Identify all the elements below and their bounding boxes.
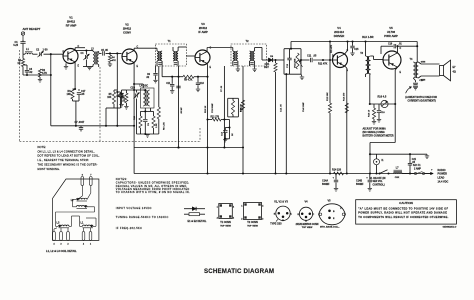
capacitor C15 [352, 42, 354, 46]
resistor R14 [334, 172, 344, 175]
wire T2 primary return [223, 66, 225, 148]
wire det return drop [242, 66, 244, 174]
svg-text:RF AMP: RF AMP [66, 24, 77, 28]
ground R4 [108, 63, 112, 65]
wire dial lamp feed [370, 153, 427, 155]
svg-text:R11 47K: R11 47K [318, 62, 328, 65]
transistor V1 [63, 49, 78, 64]
wire rail to T4 [416, 42, 418, 63]
svg-text:INPUT VOLTAGE 14VDC: INPUT VOLTAGE 14VDC [116, 206, 152, 210]
svg-text:RADIO: RADIO [438, 169, 446, 172]
diode CR1 [267, 59, 269, 61]
svg-text:MOST WINDING.: MOST WINDING. [38, 167, 61, 171]
wire base divider drop [116, 53, 118, 92]
svg-text:R18 10: R18 10 [369, 109, 371, 117]
wire V3 emitter drop [206, 64, 208, 66]
svg-text:R9 4.7K: R9 4.7K [184, 79, 193, 82]
svg-text:ANT RECEPT: ANT RECEPT [23, 27, 41, 31]
svg-text:63D892251-O: 63D892251-O [443, 226, 457, 228]
svg-text:10K: 10K [107, 97, 112, 99]
ground R18 [372, 121, 376, 123]
svg-text:C7 .0047: C7 .0047 [75, 121, 85, 124]
svg-text:1K: 1K [17, 62, 20, 65]
svg-text:C12 .05: C12 .05 [280, 104, 282, 112]
wire antenna to L1 [23, 53, 25, 55]
wire T4 secondary to speaker [418, 62, 421, 64]
svg-text:T2 CONN: T2 CONN [247, 221, 258, 224]
svg-text:TO COMPONENTS WILL RESULT IF C: TO COMPONENTS WILL RESULT IF CONNECTED O… [358, 215, 448, 219]
svg-text:L1, L2 & L3 COIL DETAIL: L1, L2 & L3 COIL DETAIL [46, 249, 77, 253]
wire bus link [133, 148, 135, 174]
capacitor C1 [22, 40, 24, 41]
wire T2 out [261, 48, 263, 61]
coil L3 primary [86, 50, 93, 52]
svg-text:C13 50MF: C13 50MF [212, 103, 214, 113]
wire L4 top [142, 84, 144, 88]
wire osc ground bar [137, 133, 159, 135]
wire R6 chain elbow [158, 131, 160, 134]
svg-text:GRN: GRN [421, 62, 426, 64]
transformer T2 secondary [250, 51, 251, 61]
potentiometer R10 volume [296, 53, 299, 69]
wire V1 emitter return [73, 100, 80, 102]
svg-text:C15: C15 [354, 49, 359, 51]
capacitor C13 [287, 57, 291, 59]
svg-text:GRN: GRN [421, 80, 426, 82]
resistor R12 drop [329, 42, 331, 104]
svg-text:.05 MF: .05 MF [181, 107, 183, 114]
ground oscillator [145, 134, 149, 136]
oscillator coil L4 box [141, 88, 155, 108]
resistor R8 [241, 100, 244, 110]
wire T1 return [161, 66, 163, 77]
svg-text:POWER: POWER [438, 173, 448, 176]
svg-text:CAUTION: CAUTION [399, 201, 413, 205]
ground C18 [377, 119, 381, 121]
resistor R9 det load [275, 60, 277, 63]
svg-text:TOP VIEW: TOP VIEW [220, 225, 232, 227]
svg-text:1.5K: 1.5K [156, 123, 158, 128]
resistor R15 osc [140, 111, 142, 116]
svg-text:R6 1.5K: R6 1.5K [164, 122, 166, 130]
ground R7 [124, 106, 128, 108]
wire C12 drop [285, 74, 287, 173]
capacitor T2 tuning [234, 62, 238, 64]
svg-text:POWER SUPPLY. RADIO WILL NOT: POWER SUPPLY. RADIO WILL NOT OPERATE AND… [358, 211, 447, 215]
coil L1 primary [25, 53, 33, 54]
transformer T2 can [231, 44, 267, 66]
ground C15 [350, 52, 354, 54]
wire V5 collector [397, 46, 399, 53]
resistor R6 chain [158, 66, 160, 107]
svg-text:CURRENT ADJUSTMENT): CURRENT ADJUSTMENT) [408, 100, 436, 103]
svg-text:IF AMP: IF AMP [198, 30, 208, 34]
caution box [356, 200, 457, 224]
svg-text:DRIVER: DRIVER [334, 34, 345, 38]
detail E1 E2 diode [184, 208, 192, 210]
svg-text:TOP VIEW: TOP VIEW [302, 227, 314, 229]
svg-text:TUNING RANGE-540KC TO 1610KC: TUNING RANGE-540KC TO 1610KC [116, 215, 169, 219]
capacitor C13 stub [197, 77, 199, 83]
ground lamp line [426, 154, 428, 155]
svg-text:DET: DET [264, 66, 269, 69]
antenna receptacle J1 [21, 32, 24, 35]
ground C12 [223, 138, 227, 140]
svg-text:NOTE:: NOTE: [38, 145, 47, 149]
ground volume [301, 74, 302, 76]
svg-text:IF FREQ-262.5KC: IF FREQ-262.5KC [116, 226, 143, 230]
wire T3 bottom [365, 74, 367, 77]
svg-text:C7 .05: C7 .05 [221, 85, 223, 92]
wire V2 collector [133, 48, 135, 50]
switch S1 [379, 173, 381, 175]
capacitor C16 [380, 46, 382, 54]
capacitor C5 [99, 52, 102, 54]
svg-text:CONV: CONV [123, 31, 131, 35]
rheostat R16 [381, 100, 388, 107]
svg-text:SER VOL: SER VOL [373, 181, 384, 183]
svg-text:C13: C13 [200, 83, 205, 85]
wire R16 line [370, 103, 395, 105]
ground V1 base cap [65, 63, 67, 66]
svg-text:ADJUST FOR 80MA: ADJUST FOR 80MA [363, 128, 387, 131]
trimmer capacitor C4 [85, 51, 87, 55]
transistor V3 [195, 50, 210, 65]
wire volume out [301, 59, 310, 61]
resistor R7 [125, 90, 127, 93]
svg-text:LEAD: LEAD [438, 176, 445, 179]
detail T2 connections [244, 203, 262, 220]
wire divider return [106, 107, 121, 109]
svg-text:5-25: 5-25 [13, 45, 18, 47]
svg-text:SCHEMATIC DIAGRAM: SCHEMATIC DIAGRAM [204, 268, 274, 275]
capacitor C11 [310, 58, 312, 62]
svg-text:I.E., NEAREST THE TERMINAL STR: I.E., NEAREST THE TERMINAL STRIP. [38, 158, 90, 162]
volume loop [283, 49, 285, 74]
wire V4 emitter drop [345, 66, 347, 68]
svg-text:CHK: CHK [395, 177, 400, 179]
transistor V4 [333, 53, 348, 68]
svg-text:500MF: 500MF [322, 183, 330, 186]
resistor R11 emitter [206, 118, 208, 120]
ground R2 [38, 79, 42, 81]
resistor R13 [345, 103, 348, 113]
wire T3 feed [365, 42, 367, 57]
wire top rail [291, 41, 417, 43]
capacitor C21 [409, 154, 411, 163]
wire V1 emitter [74, 62, 76, 89]
svg-text:2 AMP: 2 AMP [414, 167, 421, 170]
svg-text:500MF: 500MF [356, 183, 364, 186]
wire T3 return [369, 74, 371, 104]
svg-text:L4 OSC: L4 OSC [140, 84, 149, 87]
transformer T1 can [155, 44, 186, 66]
coil detail wires [81, 186, 83, 197]
transformer T1 secondary [173, 51, 174, 61]
wire V4 collector [345, 51, 348, 55]
capacitor C6 [117, 91, 120, 93]
ground T2 pin1 [237, 66, 239, 69]
svg-text:4Ω: 4Ω [453, 71, 456, 74]
tuning gang dashed link [19, 50, 21, 142]
capacitor C19 tap [413, 78, 415, 81]
resistor R1 [22, 54, 24, 58]
svg-text:TOP VIEW: TOP VIEW [247, 225, 259, 227]
wire R16 return jog [394, 104, 396, 143]
svg-text:1K: 1K [232, 133, 234, 136]
node V2 base junction [116, 52, 118, 54]
svg-text:BLK 1-BR: BLK 1-BR [362, 36, 373, 39]
svg-text:(LOWEST NOTCH USED FOR: (LOWEST NOTCH USED FOR [405, 97, 437, 99]
coil detail terminals bottom [53, 232, 56, 241]
ground C13 [196, 88, 200, 90]
wire V2 emitter [133, 63, 135, 91]
svg-text:C2B: C2B [130, 88, 135, 90]
speaker SP [440, 66, 444, 76]
svg-text:R13 470: R13 470 [343, 92, 346, 101]
svg-text:R16 4.5: R16 4.5 [378, 95, 387, 98]
trimmer C2B oscillator [136, 90, 138, 93]
capacitor C17 [78, 89, 80, 91]
svg-text:C5 .05: C5 .05 [101, 50, 108, 52]
wire divider to AVC [116, 92, 118, 126]
svg-text:R11 270: R11 270 [211, 116, 220, 118]
svg-text:TYPE CB3: TYPE CB3 [270, 223, 282, 225]
capacitor C9b [144, 111, 146, 119]
svg-text:TO CHASSIS WITH A VTVM, # ON N: TO CHASSIS WITH A VTVM, # ON NO SIGNAL I… [116, 190, 190, 194]
svg-text:C16: C16 [388, 44, 393, 46]
svg-text:E1 & E2 DETAIL: E1 & E2 DETAIL [188, 220, 207, 223]
svg-text:VOLUME: VOLUME [295, 58, 297, 68]
svg-text:R14 220: R14 220 [332, 169, 342, 172]
ground T2 pin2 [254, 66, 256, 69]
node bias junction [50, 74, 52, 76]
svg-text:4.7K: 4.7K [42, 72, 47, 75]
choke L7 [394, 172, 403, 173]
svg-text:"A" LEAD MUST BE CONNECTED TO: "A" LEAD MUST BE CONNECTED TO POSITIVE 1… [358, 206, 448, 210]
svg-text:2N1413/2N504 CONN: 2N1413/2N504 CONN [296, 223, 319, 226]
wire V5 emitter [395, 67, 397, 70]
svg-text:14.4 VDC: 14.4 VDC [438, 181, 449, 184]
detail T1 connections [219, 204, 233, 219]
lamp I1 [376, 154, 378, 159]
svg-text:R8 4.7K: R8 4.7K [239, 104, 242, 112]
capacitor C11 stub [171, 77, 173, 84]
node antenna junction [50, 53, 52, 55]
svg-text:47K: 47K [112, 59, 116, 62]
capacitor C3 [26, 73, 28, 76]
resistor R9 [179, 76, 184, 78]
capacitor C8a [121, 90, 123, 93]
resistor R3 [71, 89, 74, 99]
svg-text:R10 1K: R10 1K [205, 105, 207, 113]
svg-text:S1 ON-OFF (IN: S1 ON-OFF (IN [370, 178, 386, 180]
wire cluster ground bar [83, 66, 93, 68]
svg-text:C11: C11 [307, 55, 312, 58]
wire bias bottom [23, 74, 51, 76]
transformer T1 primary [156, 50, 158, 52]
capacitor C14B [369, 174, 371, 180]
capacitor C14A [335, 174, 337, 180]
resistor R4 [109, 53, 111, 55]
svg-text:R12 56K: R12 56K [327, 92, 329, 101]
capacitor C9 stub [155, 66, 157, 73]
wire detector out [276, 59, 285, 61]
wire T1 secondary drop [178, 66, 180, 148]
transistor V2 [122, 49, 137, 64]
svg-text:THE SECONDARY WINDING IS THE O: THE SECONDARY WINDING IS THE OUTER- [38, 162, 98, 166]
detail E1 E2 resistor [189, 213, 200, 216]
svg-text:(NO SIGNAL) USING: (NO SIGNAL) USING [363, 131, 385, 134]
coil detail outline [53, 179, 99, 240]
wire volume top feed [290, 42, 292, 49]
wire V1 collector [74, 48, 76, 50]
current-adjust arrow [406, 87, 412, 93]
wire L4 bottom pins [144, 108, 146, 111]
wire emitter bar [126, 89, 145, 91]
ground C11 [170, 90, 174, 92]
svg-text:ON L1, L2, L3 & L4 CONNECTION: ON L1, L2, L3 & L4 CONNECTION DETAIL, [38, 149, 95, 153]
capacitor T1 tuning [158, 62, 162, 64]
coil detail terminals top [81, 177, 84, 186]
svg-text:MTG. BASE-COLL.: MTG. BASE-COLL. [320, 226, 340, 229]
wire V1 collector bus [75, 50, 86, 52]
capacitor C18 [378, 104, 380, 110]
svg-text:V1, V2 & V3: V1, V2 & V3 [274, 200, 288, 203]
resistor R8a decouple [228, 97, 239, 99]
transformer T3 [366, 56, 368, 74]
trimmer capacitor C2 [39, 52, 41, 56]
resistor R5 [114, 89, 117, 91]
resistor R2 [38, 69, 41, 77]
capacitor C12 bypass [229, 120, 231, 139]
wire T1 secondary to V3 [186, 55, 195, 57]
svg-text:R11 47K: R11 47K [330, 44, 333, 53]
svg-text:DOT REFERS TO LEAD AT BOTTOM O: DOT REFERS TO LEAD AT BOTTOM OF COIL, [38, 154, 100, 158]
svg-text:C21: C21 [412, 159, 417, 161]
AVC bus [51, 125, 134, 127]
svg-text:10K: 10K [67, 93, 72, 96]
bus AVC return [134, 147, 243, 149]
svg-text:C14 10MF: C14 10MF [302, 102, 305, 112]
svg-text:CONTROL): CONTROL) [373, 185, 385, 187]
wire AVC drop [50, 54, 52, 126]
svg-text:PWR AMP: PWR AMP [384, 34, 398, 38]
wire V3 collector [206, 48, 208, 52]
ground C9 [153, 79, 157, 81]
wire C2 to V1 base [44, 53, 64, 55]
resistor R18 [373, 104, 375, 108]
fuse F1 [402, 173, 414, 175]
core L3 [94, 52, 96, 65]
wire L1 to C2 [33, 53, 38, 55]
wire T3 secondary to V5 base [371, 55, 374, 57]
coil L3 secondary [97, 52, 99, 65]
power lead terminal [425, 173, 431, 175]
transformer T2 primary [232, 50, 234, 52]
svg-text:T1 CONN: T1 CONN [220, 221, 231, 224]
resistor R6 osc [153, 111, 155, 116]
svg-text:BATTERY CURRENT METER: BATTERY CURRENT METER [363, 135, 394, 138]
svg-text:N.P. F1: N.P. F1 [413, 165, 421, 167]
bus B minus [134, 173, 433, 175]
transformer T4 [413, 62, 415, 78]
transistor V5 [383, 51, 401, 69]
svg-text:1-30: 1-30 [43, 49, 49, 52]
svg-text:NOTES:: NOTES: [116, 177, 128, 181]
ground C19 [413, 86, 417, 88]
